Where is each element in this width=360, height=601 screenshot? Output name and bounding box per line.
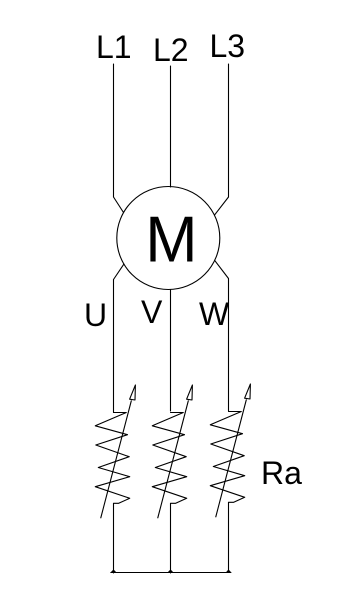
svg-text:V: V — [141, 294, 163, 330]
svg-text:U: U — [84, 297, 107, 333]
svg-text:W: W — [199, 296, 230, 332]
svg-text:L3: L3 — [210, 28, 246, 64]
svg-text:L2: L2 — [153, 32, 189, 68]
svg-text:M: M — [145, 203, 197, 276]
svg-text:Ra: Ra — [261, 455, 302, 491]
svg-text:L1: L1 — [96, 29, 132, 65]
